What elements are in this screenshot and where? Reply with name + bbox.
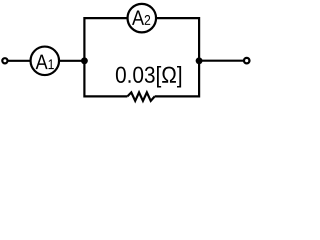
terminal right [244, 58, 250, 64]
ammeter A1 [31, 47, 60, 76]
label A1 [36, 55, 54, 69]
wire left vertical + top to A2 [84, 18, 127, 96]
wire node to terminal-right [199, 60, 243, 62]
label 0.03[ohm] [116, 66, 181, 87]
wire A1 to node [60, 60, 85, 62]
ammeter A2 [128, 4, 157, 32]
junction node left [81, 57, 88, 64]
wire right vertical + top from A2 [155, 18, 199, 96]
junction node right [196, 57, 203, 64]
resistor R zigzag [127, 92, 154, 101]
terminal left [2, 58, 7, 63]
wire terminal-left to A1 [8, 60, 30, 62]
label A2 [132, 10, 150, 24]
